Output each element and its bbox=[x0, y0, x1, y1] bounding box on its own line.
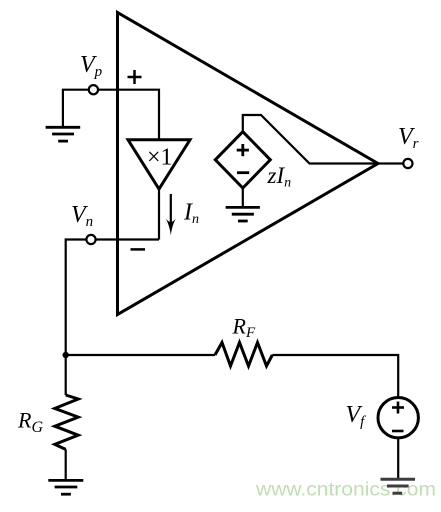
wire Vp to buffer input bbox=[98, 90, 159, 139]
wire buffer output to Vn bbox=[158, 189, 160, 240]
resistor RF bbox=[215, 343, 272, 367]
dependent source zIn (diamond) bbox=[215, 132, 270, 188]
plus sign of source bbox=[237, 144, 249, 156]
wire RG to ground bbox=[65, 449, 67, 479]
wire Vp to ground bbox=[63, 90, 89, 127]
buffer U2 x1 bbox=[128, 140, 190, 189]
wire Vn left to junction bbox=[66, 240, 87, 356]
svg-text:×1: ×1 bbox=[147, 145, 173, 171]
wire op-amp output to Vr bbox=[378, 162, 403, 164]
ground (under Vf) bbox=[381, 479, 416, 493]
wire junction to RF bbox=[66, 354, 215, 356]
wire Vf to ground bbox=[397, 438, 399, 479]
ground (left, Vp) bbox=[46, 127, 81, 141]
plus sign noninverting input bbox=[128, 70, 142, 84]
minus sign of Vf bbox=[392, 430, 404, 433]
plus sign of Vf bbox=[392, 402, 404, 414]
ground (bottom left) bbox=[48, 480, 83, 494]
wire junction to RG bbox=[65, 355, 67, 395]
node Vp terminal bbox=[89, 85, 98, 94]
resistor RG bbox=[55, 395, 78, 449]
junction node bbox=[62, 352, 68, 358]
node Vn terminal bbox=[86, 235, 95, 244]
wire source top to op-amp output bbox=[243, 115, 378, 164]
op-amp U1 outline bbox=[118, 13, 379, 315]
source Vf bbox=[378, 398, 418, 438]
wire RF to Vf bbox=[272, 355, 398, 397]
current arrow In bbox=[166, 194, 176, 236]
svg-text:www.cntronics.com: www.cntronics.com bbox=[255, 480, 436, 501]
minus sign inverting input bbox=[131, 248, 146, 251]
wire source bottom to ground bbox=[242, 188, 244, 207]
node Vr terminal bbox=[403, 159, 412, 168]
minus sign of source bbox=[237, 171, 249, 174]
ground (under zIn source) bbox=[226, 207, 260, 221]
wire Vn right to buffer output bbox=[96, 238, 159, 240]
